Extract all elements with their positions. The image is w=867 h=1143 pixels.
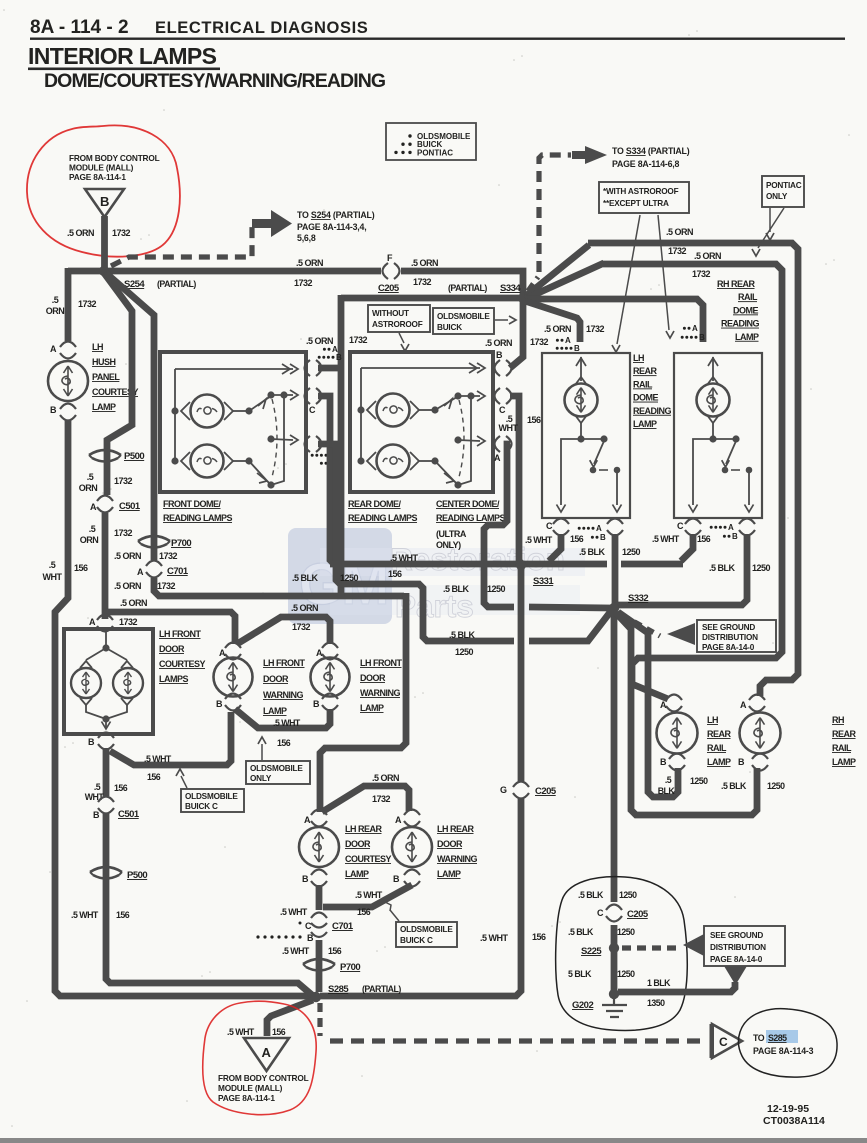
svg-text:A: A [596,524,602,533]
svg-text:READING LAMPS: READING LAMPS [436,513,505,523]
wire ORN S334 down to rear dome box B connector [510,301,523,368]
svg-text:.5 ORN: .5 ORN [291,603,318,613]
label box OLDSMOBILE BUICK C front [181,789,244,812]
svg-text:INTERIOR LAMPS: INTERIOR LAMPS [28,43,217,69]
svg-text:1732: 1732 [349,335,368,345]
wire WHT rear dome C to S331 [510,396,521,564]
svg-text:.5 WHT: .5 WHT [390,553,419,563]
svg-text:ONLY): ONLY) [436,540,461,550]
legend box OLDSMOBILE BUICK PONTIAC [386,123,476,160]
svg-text:LH: LH [633,353,644,363]
svg-text:B: B [738,757,745,767]
wire 1 BLK G202 to arrow [618,982,735,992]
component box FRONT DOME READING LAMPS [160,352,306,492]
label box SEE GROUND DISTRIBUTION 2 [704,926,785,966]
svg-text:C205: C205 [627,909,649,920]
svg-text:P700: P700 [340,962,360,973]
svg-text:.5 ORN: .5 ORN [114,581,141,591]
svg-text:.5 ORN: .5 ORN [372,773,399,783]
svg-text:.5 ORN: .5 ORN [411,258,438,268]
svg-text:ASTROROOF: ASTROROOF [372,320,423,329]
svg-text:DOOR: DOOR [263,674,289,684]
grommet P700 [138,536,170,541]
svg-text:S334: S334 [500,283,521,294]
svg-text:1250: 1250 [617,969,635,979]
svg-text:TO S334 (PARTIAL): TO S334 (PARTIAL) [612,146,690,156]
svg-text:LH FRONT: LH FRONT [360,658,402,668]
svg-text:B: B [496,350,503,360]
wire ORN bus1 down to rear door lamps [320,593,406,812]
svg-text:156: 156 [357,907,371,917]
dashed curve [272,399,277,477]
svg-text:156: 156 [570,534,584,544]
svg-text:LAMP: LAMP [707,757,731,767]
wire BLK LH rear rail lamp B to S332 [618,612,678,797]
front dome lamp 2 [171,457,178,464]
svg-text:RH: RH [832,715,844,725]
wire BLK LH rail to S332 [612,534,619,604]
svg-text:A: A [219,648,226,658]
svg-text:B: B [336,353,342,362]
svg-text:1250: 1250 [690,776,708,786]
wire ORN from S334 to LH rear rail dome reading lamp [525,301,580,342]
svg-text:PAGE 8A-14-0: PAGE 8A-14-0 [710,955,763,964]
svg-text:B: B [660,757,667,767]
svg-text:G202: G202 [572,1000,593,1011]
svg-text:.5 BLK: .5 BLK [578,890,604,900]
svg-text:A: A [728,523,734,532]
front dome box right connectors [305,360,311,376]
svg-text:C205: C205 [535,786,557,797]
ground G202 [609,989,619,999]
svg-text:B: B [600,533,606,542]
svg-text:DOOR: DOOR [159,644,185,654]
svg-text:C: C [305,921,312,931]
svg-text:B: B [216,699,223,709]
svg-text:RH REAR: RH REAR [717,279,756,289]
svg-text:.5 BLK: .5 BLK [449,630,476,640]
svg-text:LH: LH [92,342,103,352]
svg-text:.5 ORN: .5 ORN [296,258,323,268]
svg-text:PANEL: PANEL [92,372,120,382]
svg-text:.5 WHT: .5 WHT [525,535,553,545]
svg-text:S285: S285 [768,1033,787,1043]
svg-text:REAR: REAR [707,729,732,739]
svg-text:LH: LH [707,715,718,725]
svg-text:1250: 1250 [752,563,771,573]
dashed wire up to TO S334 arrow [528,277,538,291]
svg-text:COURTESY: COURTESY [345,854,392,864]
svg-text:C701: C701 [332,921,354,932]
svg-text:156: 156 [147,772,161,782]
svg-text:.5 BLK: .5 BLK [579,547,606,557]
dashed wire S332 to see ground arrow [622,615,660,636]
wire BLK center dome A to S332 [484,444,514,607]
svg-text:DOOR: DOOR [437,839,463,849]
svg-text:.5 BLK: .5 BLK [709,563,736,573]
svg-text:A: A [565,336,571,345]
svg-text:1250: 1250 [340,573,359,583]
splice S285 [311,992,321,1002]
svg-text:B: B [302,874,309,884]
svg-text:1732: 1732 [157,581,176,591]
label box OLDSMOBILE BUICK [433,308,494,334]
svg-text:B: B [50,405,57,415]
svg-text:1250: 1250 [619,890,637,900]
wire BLK S332 down to S225 and G202 [611,612,618,902]
svg-text:A: A [137,567,144,577]
svg-text:SEE GROUND: SEE GROUND [702,623,755,632]
svg-text:.5 ORN: .5 ORN [544,324,571,334]
svg-text:*WITH ASTROROOF: *WITH ASTROROOF [603,187,679,196]
svg-text:.5 WHT: .5 WHT [273,718,301,728]
svg-text:1732: 1732 [159,551,178,561]
label box WITH ASTROROOF EXCEPT ULTRA [599,182,689,213]
wire WHT 156 S331 horizontal bus [330,561,607,568]
wire ORN S334 left horizontal to front dome feed [341,295,520,302]
svg-text:(PARTIAL): (PARTIAL) [362,984,401,994]
svg-text:.5: .5 [89,524,96,534]
svg-text:CENTER DOME/: CENTER DOME/ [436,499,500,509]
svg-text:1250: 1250 [767,781,785,791]
svg-text:C205: C205 [378,283,400,294]
svg-text:.5: .5 [94,782,101,792]
svg-text:.5 WHT: .5 WHT [652,534,680,544]
svg-text:S332: S332 [628,593,648,604]
svg-text:.5 ORN: .5 ORN [114,551,141,561]
svg-text:5,6,8: 5,6,8 [297,233,316,243]
svg-text:A: A [660,700,667,710]
svg-text:LAMP: LAMP [263,706,287,716]
svg-text:A: A [90,502,97,512]
svg-text:A: A [262,1045,272,1060]
svg-text:PONTIAC: PONTIAC [766,181,802,190]
svg-text:WARNING: WARNING [437,854,477,864]
rear dome internal circuit [360,368,362,461]
svg-text:(ULTRA: (ULTRA [436,529,467,539]
svg-text:MODULE (MALL): MODULE (MALL) [69,163,134,173]
svg-text:LAMP: LAMP [360,703,384,713]
svg-text:PONTIAC: PONTIAC [417,148,453,157]
svg-text:.5 BLK: .5 BLK [568,927,594,937]
svg-text:OLDSMOBILE: OLDSMOBILE [250,764,303,773]
svg-text:ORN: ORN [46,306,65,316]
svg-text:.5 WHT: .5 WHT [280,907,308,917]
svg-text:.5 WHT: .5 WHT [71,910,99,920]
svg-text:A: A [692,324,698,333]
svg-text:.5 ORN: .5 ORN [67,228,94,238]
svg-text:OLDSMOBILE: OLDSMOBILE [400,925,453,934]
svg-text:.5: .5 [49,560,56,570]
svg-text:A: A [494,453,501,463]
dashed wire to S254 arrow [111,226,252,266]
label TO S285 PAGE 8A-114-3 [766,1030,798,1043]
wire ORN vertical x341 down to bus1 [338,295,345,596]
svg-text:ONLY: ONLY [766,192,788,201]
svg-text:HUSH: HUSH [92,357,116,367]
wire .5 WHT 156 from hush lamp down [55,420,316,997]
rear dome box right connectors B C A [495,360,501,376]
wire 1 ORN from S334 to RH rear rail lamp (right side run) [526,243,798,696]
svg-text:RAIL: RAIL [707,743,727,753]
svg-text:B: B [699,333,705,342]
svg-text:1350: 1350 [647,998,665,1008]
connectors below RH rail dome box [685,519,701,525]
svg-text:156: 156 [114,783,128,793]
svg-text:WHT: WHT [499,423,519,433]
svg-text:C: C [597,908,604,918]
ground symbol [602,998,627,1017]
front dome lamp 1 [171,407,178,414]
svg-text:S225: S225 [581,946,602,957]
svg-text:5 BLK: 5 BLK [568,969,592,979]
svg-text:1250: 1250 [622,547,641,557]
svg-text:READING LAMPS: READING LAMPS [163,513,232,523]
LH hush panel courtesy lamp [48,361,88,401]
svg-text:FROM BODY CONTROL: FROM BODY CONTROL [218,1073,309,1083]
svg-text:S285: S285 [328,984,349,995]
svg-text:FRONT DOME/: FRONT DOME/ [163,499,221,509]
component box LH rear rail dome reading lamp [542,353,630,518]
label box PONTIAC ONLY [762,176,804,207]
svg-text:B: B [100,194,109,209]
svg-text:READING LAMPS: READING LAMPS [348,513,417,523]
svg-text:SEE GROUND: SEE GROUND [710,931,763,940]
svg-text:.5 WHT: .5 WHT [144,754,172,764]
wire S254 down to P700 C701 column [106,273,154,560]
svg-text:1732: 1732 [530,337,549,347]
svg-text:DOOR: DOOR [360,673,386,683]
svg-text:.5 BLK: .5 BLK [721,781,747,791]
svg-text:DOME: DOME [633,393,658,403]
LH rail dome internal circuit [580,357,582,381]
svg-text:1250: 1250 [487,584,506,594]
svg-text:ONLY: ONLY [250,774,272,783]
page connector triangle C TO S285 [712,1024,742,1058]
wire S254 down to P500 C501 column [104,273,132,495]
svg-text:B: B [313,699,320,709]
svg-text:156: 156 [527,415,541,425]
wire branch down-left to hush panel lamp [65,268,72,341]
svg-text:A: A [316,648,323,658]
svg-text:1732: 1732 [413,277,432,287]
svg-text:LH FRONT: LH FRONT [159,629,201,639]
splice S331 [516,560,526,570]
svg-text:1250: 1250 [617,927,635,937]
svg-text:LAMP: LAMP [345,869,369,879]
svg-text:PAGE 8A-114-1: PAGE 8A-114-1 [69,172,126,182]
svg-text:156: 156 [532,932,546,942]
svg-text:G: G [500,785,507,795]
svg-text:C501: C501 [118,809,140,820]
svg-text:OLDSMOBILE: OLDSMOBILE [185,792,238,801]
wire WHT front dome C down to S331 horizontal [318,396,334,564]
svg-text:A: A [304,815,311,825]
svg-text:A: A [395,815,402,825]
wire BLK RH rear rail lamp B to S332 [616,613,757,815]
svg-text:.5 ORN: .5 ORN [306,336,333,346]
svg-text:A: A [740,700,747,710]
svg-text:DISTRIBUTION: DISTRIBUTION [710,943,766,952]
wire .5 ORN 1732 from B to S254 [101,216,108,268]
svg-text:LAMP: LAMP [92,402,116,412]
svg-text:1732: 1732 [112,228,131,238]
svg-text:C: C [309,405,316,415]
svg-text:.5: .5 [87,472,94,482]
svg-text:LAMP: LAMP [832,757,856,767]
component box RH rear rail dome reading lamp [674,353,762,518]
svg-text:.5: .5 [52,295,59,305]
courtesy lamps internal circuit [105,632,107,645]
grommet P500 lower [90,867,122,872]
svg-text:C: C [677,521,684,531]
svg-text:.5 ORN: .5 ORN [694,251,721,261]
svg-text:LAMP: LAMP [735,332,759,342]
wire WHT bridge warning lamp B1 to B2 oldsmobile only [235,709,330,728]
page connector triangle A from body control module [244,1038,289,1071]
wire WHT RH rail C to S331 bus [681,534,693,561]
svg-text:1732: 1732 [372,794,391,804]
svg-text:LH REAR: LH REAR [345,824,382,834]
label box WITHOUT ASTROROOF [368,305,430,332]
rear dome lamp 1 [357,406,364,413]
wire ORN lambda to warning lamp 2 [237,617,330,644]
connector C701 pins C and B [311,913,327,919]
wire BLK front dome A down and over to S332 [318,444,514,641]
svg-text:C701: C701 [167,566,189,577]
svg-text:A: A [89,617,96,627]
wire WHT courtesy B down through C501 P500 to S285 [103,748,110,796]
svg-text:B: B [393,874,400,884]
svg-text:REAR: REAR [633,366,658,376]
black circle around TO S285 [738,1009,837,1077]
svg-text:DISTRIBUTION: DISTRIBUTION [702,633,758,642]
solid arrow down from see ground box [724,966,747,985]
wire WHT LH rail C to S331 bus [549,534,561,561]
svg-text:LH REAR: LH REAR [437,824,474,834]
watermark GM Restoration Parts [288,528,585,624]
svg-text:1732: 1732 [292,622,311,632]
svg-text:1732: 1732 [119,617,138,627]
page connector triangle B from body control module [85,189,124,217]
svg-text:12-19-95: 12-19-95 [767,1103,809,1115]
label box SEE GROUND DISTRIBUTION 1 [697,620,776,652]
svg-text:.5 ORN: .5 ORN [120,598,147,608]
svg-text:156: 156 [272,1027,286,1037]
wire WHT courtesy B down through C701 P700 to S285 [316,885,323,910]
svg-text:156: 156 [697,534,711,544]
svg-text:C: C [546,521,553,531]
svg-text:1732: 1732 [78,299,97,309]
svg-text:READING: READING [633,406,672,416]
svg-text:LAMP: LAMP [633,419,657,429]
svg-text:DOME/COURTESY/WARNING/READING: DOME/COURTESY/WARNING/READING [44,70,385,92]
svg-text:DOME: DOME [733,305,758,315]
svg-text:TO: TO [753,1033,765,1043]
stub to front dome box top connector [318,365,341,372]
svg-text:BUICK: BUICK [437,323,462,332]
svg-text:B: B [88,737,95,747]
svg-text:FROM BODY CONTROL: FROM BODY CONTROL [69,153,160,163]
svg-text:REAR: REAR [832,729,857,739]
svg-text:.5 WHT: .5 WHT [282,946,310,956]
component box REAR DOME CENTER DOME READING LAMPS [350,352,493,492]
wire ORN from S334 to RH rear rail dome reading lamp [526,299,703,342]
svg-text:B: B [732,532,738,541]
svg-text:LAMPS: LAMPS [159,674,188,684]
svg-text:B: B [574,344,580,353]
pointer arrows from PONTIAC ONLY box [769,208,771,232]
front dome internal circuit [174,369,176,461]
svg-text:MODULE (MALL): MODULE (MALL) [218,1083,283,1093]
svg-text:(PARTIAL): (PARTIAL) [157,279,196,289]
svg-text:PAGE 8A-114-1: PAGE 8A-114-1 [218,1093,275,1103]
svg-text:.5 BLK: .5 BLK [292,573,319,583]
svg-text:1732: 1732 [114,476,133,486]
front dome switch wiring [249,396,271,411]
svg-text:RAIL: RAIL [832,743,852,753]
splice S225 [609,943,619,953]
svg-text:B: B [307,933,314,943]
svg-text:PAGE 8A-114-3,4,: PAGE 8A-114-3,4, [297,222,367,232]
courtesy lamp bulbs [71,668,101,698]
svg-text:TO S254 (PARTIAL): TO S254 (PARTIAL) [297,210,375,220]
svg-text:156: 156 [116,910,130,920]
black hand-drawn circle around S225 G202 group [556,877,688,1031]
wire 2 ORN from S334 to LH rear rail lamp [525,263,782,699]
svg-text:.5 WHT: .5 WHT [480,933,509,943]
grommet P500 [89,450,121,455]
svg-text:.5 WHT: .5 WHT [355,890,383,900]
svg-text:(PARTIAL): (PARTIAL) [448,283,487,293]
RH rail dome internal circuit [712,357,714,381]
svg-text:REAR DOME/: REAR DOME/ [348,499,402,509]
splice S254 [99,266,109,276]
svg-text:**EXCEPT ULTRA: **EXCEPT ULTRA [603,199,669,208]
wire WHT oldsmobile branch to warning lamp B1 [110,712,231,765]
grommet P700 lower [303,959,335,964]
label box OLDSMOBILE ONLY [246,761,310,784]
svg-text:1732: 1732 [586,324,605,334]
wire S331 down to C205 G and S285 [518,569,525,782]
pointer arrows from astroroof box to lamp boxes [617,215,640,344]
svg-text:1732: 1732 [692,269,711,279]
red hand-drawn circle around B connector [27,125,180,256]
svg-text:P500: P500 [127,870,147,881]
svg-text:BLK: BLK [658,786,676,796]
svg-text:OLDSMOBILE: OLDSMOBILE [437,312,490,321]
svg-text:C501: C501 [119,501,141,512]
svg-text:WHT: WHT [43,572,63,582]
svg-text:B: B [93,810,100,820]
wire BLK RH rail to S332 [614,534,747,608]
svg-text:.5 ORN: .5 ORN [485,338,512,348]
rear dome lamp 2 [357,457,364,464]
svg-text:DOOR: DOOR [345,839,371,849]
wire ORN bus2 to courtesy lamps box and warning lamp 1 [105,612,235,644]
svg-text:RAIL: RAIL [633,379,653,389]
svg-text:WITHOUT: WITHOUT [372,309,409,318]
svg-text:WARNING: WARNING [360,688,400,698]
svg-text:.5 ORN: .5 ORN [666,227,693,237]
svg-text:8A - 114 - 2: 8A - 114 - 2 [30,17,129,38]
wire WHT S285 down-left to A triangle [267,1000,313,1036]
svg-text:ELECTRICAL DIAGNOSIS: ELECTRICAL DIAGNOSIS [155,19,368,37]
svg-text:.5: .5 [665,775,672,785]
svg-text:P700: P700 [171,538,191,549]
svg-text:156: 156 [74,563,88,573]
svg-text:PAGE 8A-114-6,8: PAGE 8A-114-6,8 [612,159,680,169]
